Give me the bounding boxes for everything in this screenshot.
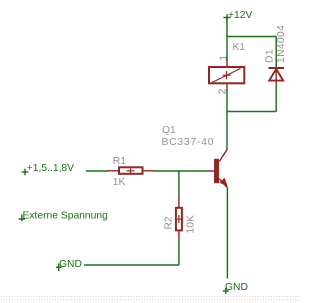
svg-text:+1,5..1,8V: +1,5..1,8V [27,163,74,174]
svg-text:GND: GND [225,282,248,293]
resistor R1 [107,167,156,175]
node base junction, wire down to R2 [178,171,180,196]
wire: input to R1 [86,170,108,172]
svg-text:K1: K1 [233,42,246,53]
wire: branch down to relay pin 1 [226,37,228,62]
ground left [56,264,62,272]
svg-text:D1: D1 [265,49,276,63]
svg-text:Q1: Q1 [162,125,176,136]
wire: R2 down and left to GND [178,241,180,266]
svg-text:1K: 1K [113,177,126,188]
wire: emitter down to GND [226,188,228,279]
svg-text:10K: 10K [185,215,196,233]
transistor Q1 [208,149,228,188]
svg-text:R1: R1 [113,156,126,167]
svg-text:GND: GND [59,259,82,270]
svg-text:1: 1 [218,55,229,61]
svg-text:1N4004: 1N4004 [276,25,287,63]
text note Externe Spannung [19,215,26,222]
input pin +1,5..1,8V [22,169,29,176]
wire: +12V down to branch [226,18,228,37]
wire: relay pin2 to collector [226,90,228,149]
resistor R2 [175,195,183,242]
wire: diode anode down [275,84,277,112]
svg-text:+12V: +12V [228,10,252,21]
wire: branch down to diode cathode [275,37,277,67]
frame dotted bottom border [1,297,300,301]
svg-text:Externe Spannung: Externe Spannung [23,210,109,221]
svg-text:BC337-40: BC337-40 [162,137,215,148]
supply +12V [223,14,230,20]
ground right [223,288,229,294]
svg-text:R2: R2 [163,216,174,229]
wire: lower branch horizontal [227,111,276,113]
relay K1 [209,60,244,91]
wire: top branch horizontal to diode [227,36,276,38]
diode D1 [269,66,285,84]
wire: R1 to Q1 base [155,170,209,172]
